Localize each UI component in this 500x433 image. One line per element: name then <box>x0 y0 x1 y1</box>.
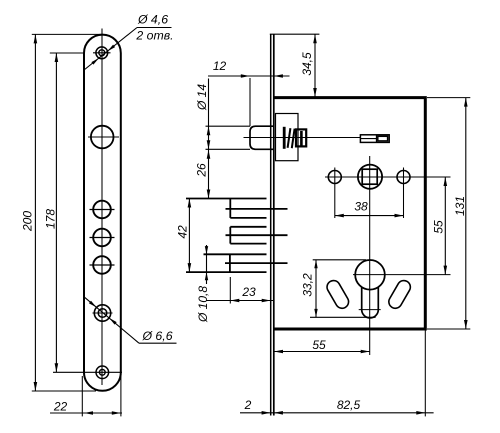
svg-text:42: 42 <box>176 225 190 239</box>
tooth 3 bottom line I with extensions <box>186 271 267 273</box>
spring flange bar <box>283 127 286 149</box>
svg-text:82,5: 82,5 <box>337 398 361 412</box>
slider inner block <box>378 136 388 141</box>
slider divider <box>376 135 378 143</box>
dimension 38 line <box>335 215 404 217</box>
extension line body right edge down <box>424 331 426 417</box>
svg-text:131: 131 <box>453 196 467 216</box>
tooth 1 center line B <box>226 208 288 210</box>
svg-text:23: 23 <box>241 285 256 299</box>
follower vertical center line down to keyhole <box>369 156 371 355</box>
faceplate side view right line / body left edge <box>273 34 275 415</box>
svg-text:34,5: 34,5 <box>300 52 314 76</box>
hole Ø6,6 horizontal center tick <box>93 312 113 314</box>
lock body outline <box>274 98 426 329</box>
dimension 200 extension line top <box>32 33 102 35</box>
slider outline <box>360 135 389 143</box>
tooth 2 center line E <box>226 234 288 236</box>
small hole 1 with crosshair <box>93 201 111 219</box>
spring coil stroke 1 <box>288 128 291 148</box>
keyhole stem left side <box>361 287 363 310</box>
tooth 3 top line G with extension <box>204 253 267 255</box>
tooth 3 left edge <box>229 254 231 272</box>
svg-text:55: 55 <box>312 338 326 352</box>
dimension 55 right line <box>444 177 446 275</box>
top screw hole countersink (Ø4,6) <box>96 47 108 59</box>
svg-text:2 отв.: 2 отв. <box>135 29 173 43</box>
hole Ø6,6 inner <box>98 309 107 318</box>
teeth top line A with extensions <box>186 198 267 200</box>
tooth 2 bottom line F <box>230 243 266 245</box>
dimension 12 line <box>208 75 290 77</box>
dimension Ø10,8 line with outside arrows <box>206 245 208 284</box>
right small circle <box>397 171 410 184</box>
bottom screw hole countersink <box>96 366 109 379</box>
svg-text:Ø 10,8: Ø 10,8 <box>196 286 210 323</box>
faceplate vertical center line <box>101 29 103 386</box>
dimension line Ø14 / 26 vertical <box>208 79 210 199</box>
keyhole bottom center tick <box>359 309 381 311</box>
right small circle vertical center line <box>403 168 405 219</box>
bolt top face extension line <box>206 125 251 127</box>
dimension 178 extension line bottom <box>53 371 122 373</box>
svg-text:33,2: 33,2 <box>301 273 315 297</box>
dimension 55 bottom line <box>274 351 370 353</box>
dimension 23 line <box>206 300 274 302</box>
faceplate side view top cap and 34,5 extension line <box>270 33 320 35</box>
keyhole stem right side <box>377 287 379 310</box>
spring coil stroke 2 <box>292 129 295 149</box>
right angled oval slot <box>386 278 412 310</box>
bolt bottom face extension line <box>206 148 251 150</box>
leader line for Ø6,6 <box>84 297 139 343</box>
svg-text:22: 22 <box>53 400 68 414</box>
dimension 22 extension line right <box>120 374 122 416</box>
svg-text:12: 12 <box>213 59 227 73</box>
tooth 1 bottom line C <box>230 217 266 219</box>
svg-text:2: 2 <box>244 398 252 412</box>
follower square circle <box>358 165 382 189</box>
dimension 131 line <box>465 98 467 329</box>
left angled oval slot <box>325 278 351 310</box>
svg-text:55: 55 <box>432 220 446 234</box>
dimension 23 extension line left <box>229 277 231 304</box>
dimension 22 extension line left <box>81 376 83 416</box>
dimension 200 line <box>34 34 36 391</box>
bolt horizontal center line <box>244 137 361 139</box>
svg-text:Ø 14: Ø 14 <box>195 84 209 111</box>
small hole 3 with crosshair <box>93 256 111 274</box>
dimension 131 extension line bottom <box>427 328 470 330</box>
main horizontal center line through circles <box>325 176 451 178</box>
dimension 2 and 82,5 line <box>240 412 434 414</box>
leader arrowheads at Ø4,6 hole <box>108 45 116 52</box>
tooth 3 center line H <box>225 262 288 264</box>
svg-text:38: 38 <box>354 200 368 214</box>
tooth 2 left edge <box>229 227 231 244</box>
slider mid line <box>360 138 376 140</box>
extension line from bolt face up to dimension 12 <box>249 78 251 126</box>
small hole 2 with crosshair <box>93 229 111 247</box>
adjusting nut inner bar <box>300 131 303 146</box>
adjusting nut rectangle <box>296 129 306 146</box>
dimension 178 line <box>55 53 57 372</box>
follower square <box>362 169 377 184</box>
faceplate front view outline <box>84 35 121 391</box>
keyhole horizontal center line <box>353 274 451 276</box>
svg-text:26: 26 <box>195 163 209 178</box>
dimension 178 extension line top <box>50 52 84 54</box>
left small circle <box>328 171 341 184</box>
bottom screw hole inner <box>99 369 105 375</box>
bolt spring housing rectangle <box>276 114 299 161</box>
dimension 131 extension line top <box>427 97 470 99</box>
dimension 22 line <box>50 412 122 414</box>
keyhole bottom arc <box>362 310 379 318</box>
left small circle vertical center line <box>334 168 336 219</box>
large hole in faceplate <box>91 126 114 149</box>
bolt head side view <box>250 126 275 149</box>
top screw hole (Ø4,6) inner <box>99 50 105 56</box>
svg-text:Ø 6,6: Ø 6,6 <box>141 329 172 343</box>
dimension 200 extension line bottom <box>32 390 96 392</box>
dimension 33,2 extension line bottom <box>310 316 376 318</box>
faceplate side view left line <box>270 34 272 415</box>
tooth 1 left edge <box>229 199 231 218</box>
svg-text:178: 178 <box>44 209 58 229</box>
svg-text:200: 200 <box>21 211 35 232</box>
hole Ø6,6 countersink <box>94 305 110 321</box>
leader line for Ø4,6 <box>84 28 137 71</box>
tooth 2 top line D <box>230 226 266 228</box>
dimension 33,2 extension line top <box>313 259 366 261</box>
dimension 33,2 line <box>315 260 317 318</box>
top screw hole horizontal center tick <box>93 52 111 54</box>
large hole horizontal center tick <box>88 136 119 138</box>
dimension 42 line <box>188 199 190 273</box>
leader arrowheads at Ø6,6 hole <box>89 301 97 308</box>
keyhole circle <box>355 260 385 290</box>
svg-text:Ø 4,6: Ø 4,6 <box>137 13 168 27</box>
dimension 34,5 line <box>314 34 316 97</box>
